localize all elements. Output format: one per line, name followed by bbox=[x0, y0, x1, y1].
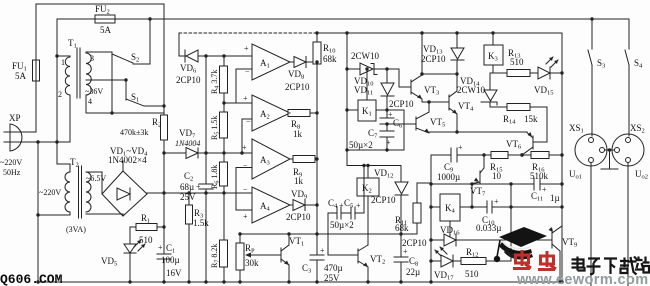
relay K1 bbox=[347, 69, 404, 150]
svg-text:−: − bbox=[246, 117, 251, 126]
resistor R14 bbox=[490, 104, 547, 143]
watermark graduation cap bbox=[494, 227, 547, 262]
svg-text:510: 510 bbox=[465, 269, 479, 279]
svg-text:+: + bbox=[494, 197, 499, 206]
wire bottom rail bbox=[38, 281, 562, 283]
transistor VT6 bbox=[506, 132, 533, 155]
svg-text:30k: 30k bbox=[245, 258, 259, 268]
resistor R12 bbox=[461, 247, 511, 279]
transistor VT3 bbox=[411, 33, 449, 102]
diode VD12 bbox=[371, 166, 408, 235]
svg-text:R7 8.2k: R7 8.2k bbox=[210, 244, 221, 268]
bridge rectifier VD1-VD4 bbox=[86, 146, 148, 216]
svg-text:1N4002×4: 1N4002×4 bbox=[108, 155, 147, 165]
svg-text:2CP10: 2CP10 bbox=[421, 54, 446, 64]
wire x431 vertical bbox=[430, 155, 432, 282]
plug XP bbox=[4, 113, 70, 151]
svg-text:470µ: 470µ bbox=[324, 263, 343, 273]
svg-text:~6.5V: ~6.5V bbox=[86, 174, 106, 183]
capacitor C7 bbox=[349, 124, 394, 150]
wire y155 bus bbox=[431, 154, 451, 156]
wire top rail left bbox=[36, 3, 164, 5]
capacitor C9 bbox=[437, 143, 463, 182]
svg-text:2: 2 bbox=[58, 90, 62, 99]
resistor R15 bbox=[490, 152, 508, 182]
switch S2 bbox=[112, 52, 150, 64]
svg-text:50Hz: 50Hz bbox=[3, 168, 21, 177]
svg-text:470k±3k: 470k±3k bbox=[120, 128, 148, 137]
capacitor C11 bbox=[531, 178, 560, 203]
capacitor C2 bbox=[180, 56, 213, 282]
svg-text:15k: 15k bbox=[524, 114, 538, 124]
watermark chongchong red chars bbox=[513, 250, 556, 270]
capacitor C3 bbox=[302, 246, 343, 283]
transistor VT4 bbox=[449, 91, 474, 132]
capacitor C10 bbox=[472, 197, 562, 233]
svg-text:XP: XP bbox=[9, 113, 21, 123]
wire FU2 rail bbox=[57, 18, 95, 20]
LED VD15 bbox=[534, 57, 562, 97]
ground between sockets bbox=[601, 148, 618, 169]
capacitor C6 bbox=[380, 110, 403, 130]
diode VD13 bbox=[421, 33, 464, 91]
svg-text:−: − bbox=[243, 185, 248, 194]
resistor R16 bbox=[530, 152, 549, 182]
diode VD8 bbox=[285, 57, 317, 93]
svg-text:5A: 5A bbox=[100, 25, 112, 35]
op-amp A4 bbox=[243, 185, 290, 223]
svg-text:+: + bbox=[458, 143, 463, 152]
svg-text:~36V: ~36V bbox=[85, 87, 103, 96]
svg-text:1000µ: 1000µ bbox=[437, 172, 460, 182]
svg-text:+: + bbox=[243, 212, 248, 221]
svg-text:+: + bbox=[243, 94, 248, 103]
relay K3 bbox=[484, 33, 503, 73]
svg-text:2CP10: 2CP10 bbox=[176, 75, 201, 85]
svg-text:1: 1 bbox=[61, 58, 65, 67]
svg-text:68µ: 68µ bbox=[180, 182, 194, 192]
svg-text:~220V: ~220V bbox=[39, 188, 61, 197]
svg-text:510k: 510k bbox=[530, 171, 549, 181]
svg-text:+: + bbox=[242, 143, 247, 152]
svg-text:+: + bbox=[403, 247, 408, 256]
capacitor C4 C5 pair bbox=[328, 166, 364, 231]
svg-text:510: 510 bbox=[510, 57, 524, 67]
wire mid rail y33 bbox=[179, 32, 317, 34]
wire x38 vertical (neutral down) bbox=[37, 142, 39, 282]
svg-text:1N4004: 1N4004 bbox=[175, 139, 200, 148]
wire T1 sec top to S2 bbox=[86, 51, 112, 53]
resistor R1 bbox=[130, 213, 164, 245]
wire T1 mid tap bbox=[86, 79, 126, 81]
resistor R7 bbox=[210, 240, 228, 282]
svg-text:100µ: 100µ bbox=[161, 255, 180, 265]
LED VD5 bbox=[101, 227, 145, 282]
wire x347 vertical from rail bbox=[346, 33, 348, 166]
switch S3 bbox=[588, 19, 605, 136]
transistor VT9 bbox=[549, 226, 578, 282]
resistor R2 bbox=[120, 115, 168, 140]
relay K2 bbox=[347, 166, 401, 246]
resistor R5 bbox=[210, 112, 228, 162]
svg-text:25V: 25V bbox=[324, 273, 340, 283]
transistor VT2 bbox=[328, 213, 385, 282]
svg-text:+: + bbox=[356, 201, 361, 210]
svg-text:(3VA): (3VA) bbox=[66, 225, 86, 234]
socket XS1 bbox=[569, 123, 607, 286]
svg-text:+: + bbox=[196, 182, 201, 191]
svg-text:~220V: ~220V bbox=[0, 158, 22, 167]
resistor R6 bbox=[210, 162, 228, 240]
svg-text:0.033µ: 0.033µ bbox=[476, 223, 501, 233]
svg-text:2CP10: 2CP10 bbox=[389, 99, 414, 109]
wire S2 up to rail bbox=[149, 19, 151, 64]
svg-text:−: − bbox=[243, 161, 248, 170]
diode VD9 bbox=[286, 189, 317, 222]
wire y240 bus bbox=[431, 239, 552, 241]
watermark chinese site name bbox=[572, 257, 650, 275]
svg-text:1µ: 1µ bbox=[550, 193, 560, 203]
svg-text:2CW10: 2CW10 bbox=[351, 51, 379, 61]
svg-text:−: − bbox=[245, 67, 250, 76]
relay K4 bbox=[431, 194, 472, 240]
capacitor C8 bbox=[394, 234, 420, 282]
resistor R3 bbox=[186, 193, 210, 282]
wire y184 bus bbox=[431, 183, 534, 185]
transistor VT1 bbox=[245, 234, 304, 282]
wire x511 vertical bbox=[510, 184, 512, 261]
switch S4 bbox=[625, 19, 643, 136]
diode VD7 bbox=[164, 128, 252, 159]
svg-text:1k: 1k bbox=[293, 129, 303, 139]
wire left vertical x36 bbox=[35, 4, 37, 60]
svg-text:4: 4 bbox=[88, 97, 92, 106]
transistor VT7 bbox=[470, 155, 486, 198]
transformer T2 bbox=[38, 157, 106, 234]
wire x472 vertical bbox=[471, 184, 473, 207]
wire x164 main vertical bbox=[163, 4, 165, 115]
svg-text:+: + bbox=[244, 44, 249, 53]
wire x57 vertical (FU2 left down to T2) bbox=[56, 19, 58, 164]
LED VD16 bbox=[435, 225, 460, 257]
LED VD17 bbox=[431, 255, 461, 282]
svg-text:+: + bbox=[386, 138, 391, 147]
fuse FU2 bbox=[95, 4, 115, 35]
transistor VT5 bbox=[387, 102, 445, 133]
svg-text:R4 3.7k: R4 3.7k bbox=[210, 70, 221, 94]
resistor R4 bbox=[210, 56, 228, 112]
resistor R9 bbox=[290, 156, 317, 187]
svg-text:5A: 5A bbox=[15, 71, 27, 81]
svg-text:R6 1.8k: R6 1.8k bbox=[210, 165, 221, 189]
switch S1 bbox=[126, 92, 164, 106]
wire T1 tap4 to R2 bbox=[85, 95, 87, 113]
op-amp A3 bbox=[236, 139, 290, 210]
svg-text:2CW10: 2CW10 bbox=[457, 85, 485, 95]
diode VD6 bbox=[176, 50, 252, 85]
transformer T1 bbox=[57, 38, 103, 142]
capacitor C1 bbox=[157, 243, 182, 282]
socket XS2 bbox=[612, 123, 648, 286]
resistor R11 bbox=[395, 183, 431, 234]
wire y33 rail right corner down x562 bbox=[561, 33, 563, 282]
svg-text:www.eeworm.com: www.eeworm.com bbox=[516, 272, 649, 286]
svg-text:50µ×2: 50µ×2 bbox=[330, 220, 354, 230]
wire bridge + output bus bbox=[147, 192, 252, 194]
svg-text:2CP10: 2CP10 bbox=[285, 82, 310, 92]
svg-text:68k: 68k bbox=[323, 54, 337, 64]
wire y33 rail left corner down bbox=[178, 33, 180, 56]
wire emitter bus y132 bbox=[429, 131, 527, 133]
fuse FU1 bbox=[12, 60, 40, 81]
svg-text:16V: 16V bbox=[166, 268, 182, 278]
svg-text:10: 10 bbox=[492, 171, 502, 181]
svg-text:1k: 1k bbox=[294, 176, 304, 186]
svg-text:+: + bbox=[320, 246, 325, 255]
wire y234 bus bbox=[240, 233, 417, 235]
wire zener corner to VT3 bbox=[399, 69, 411, 87]
resistor R13 bbox=[493, 48, 538, 77]
zener VD10 2CW10 bbox=[347, 51, 399, 97]
svg-text:+: + bbox=[158, 243, 163, 252]
svg-text:1.5k: 1.5k bbox=[193, 218, 209, 228]
svg-text:2CP10: 2CP10 bbox=[286, 212, 311, 222]
svg-text:R5 1.5k: R5 1.5k bbox=[210, 116, 221, 140]
svg-text:3: 3 bbox=[90, 54, 94, 63]
svg-text:+: + bbox=[542, 185, 547, 194]
op-amp A1 bbox=[224, 44, 290, 103]
svg-text:2CP10: 2CP10 bbox=[371, 195, 396, 205]
resistor R8 bbox=[288, 110, 317, 140]
svg-text:68k: 68k bbox=[395, 223, 409, 233]
svg-text:22µ: 22µ bbox=[406, 267, 420, 277]
wire VT3 collector to x457 bbox=[422, 73, 457, 75]
svg-text:Q606.COM: Q606.COM bbox=[0, 272, 63, 286]
diode VD11 bbox=[381, 69, 414, 118]
resistor R10 bbox=[313, 33, 337, 254]
svg-text:50µ×2: 50µ×2 bbox=[349, 140, 373, 150]
potentiometer RP bbox=[236, 234, 259, 282]
op-amp A2 bbox=[224, 94, 290, 153]
zener VD14 2CW10 bbox=[457, 73, 497, 107]
